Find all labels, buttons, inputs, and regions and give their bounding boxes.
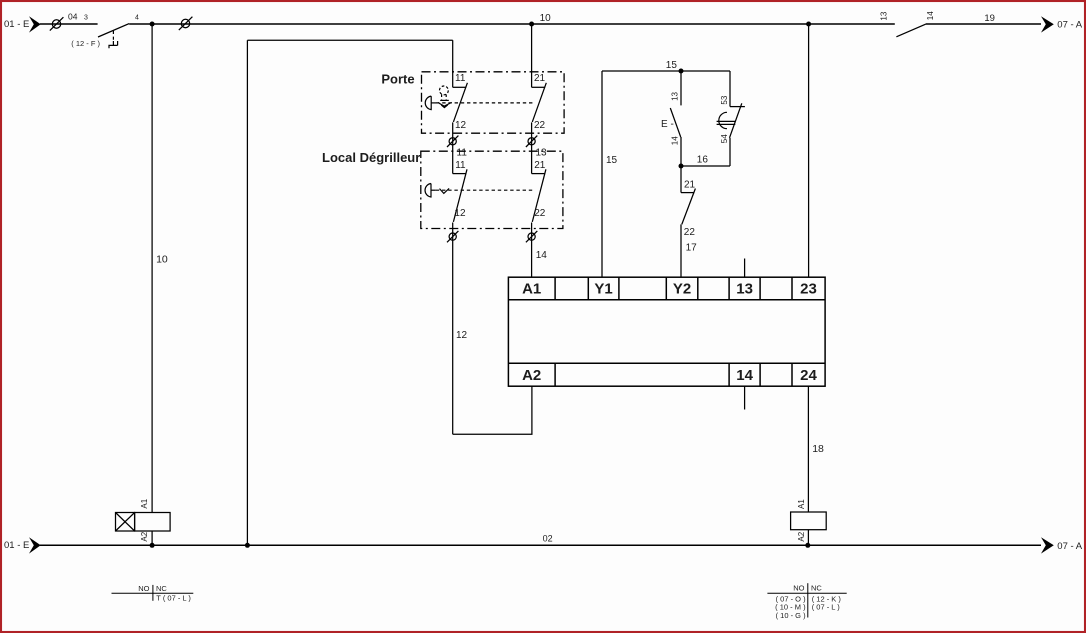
bottom-left rail entry arrow xyxy=(29,537,41,553)
wire 14 down to relay A1 xyxy=(531,223,533,278)
node 07-A bottom rail label xyxy=(1057,541,1082,552)
svg-text:Y1: Y1 xyxy=(594,281,612,298)
svg-text:22: 22 xyxy=(684,227,696,238)
svg-text:A2: A2 xyxy=(140,531,149,541)
Porte roller actuator semicircle xyxy=(425,96,431,110)
label E - xyxy=(661,119,674,130)
svg-text:E -: E - xyxy=(661,119,674,130)
junction node x=531.6 xyxy=(529,22,534,27)
wire jog from contact 12 to A2 xyxy=(453,386,532,434)
Porte NC contact 11/12 xyxy=(453,86,467,88)
pin 22 label xyxy=(534,208,546,219)
pin 21 label xyxy=(684,180,696,191)
svg-text:21: 21 xyxy=(684,180,696,191)
wire down to Porte contact 21 xyxy=(531,24,533,87)
pin 22 label xyxy=(684,227,696,238)
pin 22 label xyxy=(534,120,546,131)
Local NC contact 21/22 xyxy=(532,173,546,175)
bottom rail xyxy=(4,534,1083,554)
mechanical link dashed xyxy=(112,31,114,40)
wire number 13 xyxy=(536,147,548,158)
svg-text:NO: NO xyxy=(793,584,804,593)
svg-text:22: 22 xyxy=(534,208,546,219)
svg-text:17: 17 xyxy=(686,243,698,254)
Porte key symbol xyxy=(440,86,449,99)
wire Porte contact1 to Local contact1 xyxy=(452,122,454,173)
pin 12 label xyxy=(454,208,466,219)
pin 21 label xyxy=(534,73,546,84)
wire second vertical x=247.4 xyxy=(246,40,248,545)
wire label 16 xyxy=(697,155,709,166)
Local chevron xyxy=(440,188,450,193)
svg-text:21: 21 xyxy=(534,160,546,171)
svg-text:11: 11 xyxy=(457,147,468,158)
svg-text:01 - E: 01 - E xyxy=(4,540,29,551)
wire 23 vertical xyxy=(808,24,810,277)
pin A1 rotated xyxy=(797,499,806,509)
wire label 17 xyxy=(686,243,698,254)
terminal 14 stub below xyxy=(744,386,746,409)
svg-text:13: 13 xyxy=(536,147,548,158)
top-left rail entry arrow xyxy=(29,16,41,32)
interruption symbol on wire 04 xyxy=(52,20,60,28)
svg-text:12: 12 xyxy=(455,120,467,131)
junction node x=247.4 xyxy=(245,543,250,548)
svg-text:( 07 - L ): ( 07 - L ) xyxy=(812,603,841,612)
pin 54 rotated xyxy=(720,134,729,143)
wire label 10 xyxy=(540,13,552,24)
mechanical linkage dashed Local xyxy=(436,189,535,191)
wire top rail segment 2 xyxy=(129,23,895,25)
svg-text:( 10 - G ): ( 10 - G ) xyxy=(776,611,807,620)
NO contact 13/14 top right blade xyxy=(896,24,925,37)
wire 12 vertical down from Local contact1 xyxy=(452,223,454,435)
Local actuator semicircle xyxy=(425,184,431,198)
top-right rail exit arrow xyxy=(1041,16,1054,32)
Local Degrilleur enclosure (dash-dot) xyxy=(421,151,563,228)
pin A1 rotated xyxy=(140,498,149,508)
svg-text:4: 4 xyxy=(135,14,139,21)
svg-text:07 - A: 07 - A xyxy=(1057,20,1082,31)
pin 14 rotated xyxy=(670,136,679,145)
timed contact blade xyxy=(730,103,742,138)
svg-text:NC: NC xyxy=(811,584,822,593)
timer relay block K2 xyxy=(508,277,825,386)
junction node x=152 xyxy=(150,22,155,27)
Local NC contact 11/12 xyxy=(453,173,467,175)
node 07-A top rail label xyxy=(1057,20,1082,31)
reference label (12-F) xyxy=(71,39,100,48)
wire below timed contact xyxy=(729,138,731,166)
pin 21 label xyxy=(534,160,546,171)
coil K1 with latching indicator xyxy=(116,498,171,548)
wire Y1 vertical xyxy=(601,71,603,277)
junction node 15 xyxy=(679,69,684,74)
limit switch contact (12-F) blade xyxy=(98,24,129,37)
svg-text:13: 13 xyxy=(880,11,889,20)
svg-text:A1: A1 xyxy=(797,499,806,509)
Porte NC contact 21/22 xyxy=(532,86,546,88)
pin 4 label xyxy=(135,14,139,21)
svg-text:3: 3 xyxy=(84,14,88,21)
svg-text:18: 18 xyxy=(812,443,824,455)
mechanical linkage dashed Porte xyxy=(436,102,535,104)
svg-text:A2: A2 xyxy=(522,367,541,384)
top row cell borders xyxy=(554,277,556,300)
svg-text:A2: A2 xyxy=(797,531,806,541)
wire top rail segment 3 xyxy=(926,23,1041,25)
svg-text:Local Dégrilleur: Local Dégrilleur xyxy=(322,150,420,165)
pin label 13 rotated xyxy=(880,11,889,20)
svg-text:14: 14 xyxy=(536,250,548,261)
junction node xyxy=(150,543,155,548)
timed contact branch stub xyxy=(729,71,731,107)
E-stop blade xyxy=(670,108,680,137)
coil K2 xyxy=(791,499,827,548)
svg-text:24: 24 xyxy=(800,367,817,384)
bottom row cell borders xyxy=(554,363,556,386)
wire node16 horizontal xyxy=(681,165,730,167)
wire label 15 xyxy=(666,60,678,71)
node 01-E top rail label xyxy=(4,19,29,30)
terminal mark below left xyxy=(449,233,456,240)
wire 17 down to relay Y2 xyxy=(680,224,682,277)
svg-text:01 - E: 01 - E xyxy=(4,19,29,30)
svg-text:14: 14 xyxy=(926,11,935,20)
pin label 14 rotated xyxy=(926,11,935,20)
svg-text:10: 10 xyxy=(156,254,168,266)
svg-text:Porte: Porte xyxy=(381,72,414,87)
svg-text:NO: NO xyxy=(138,584,149,593)
svg-text:13: 13 xyxy=(670,91,679,100)
svg-text:15: 15 xyxy=(606,155,618,166)
wire Porte contact2 to Local contact2 xyxy=(531,122,533,173)
svg-text:15: 15 xyxy=(666,60,678,71)
wire down to Porte contact 11 xyxy=(452,40,454,87)
pin 11 label xyxy=(455,160,466,171)
NC contact 21/22 below node 16 xyxy=(680,166,682,193)
pin 11 label xyxy=(455,73,466,84)
wire label 15 vertical xyxy=(606,155,618,166)
svg-text:( 12 - F ): ( 12 - F ) xyxy=(71,39,100,48)
svg-text:A1: A1 xyxy=(522,281,541,298)
interruption symbol on rail xyxy=(181,19,189,27)
terminal 13 stub xyxy=(744,259,746,278)
wire coil K2 to rail xyxy=(807,530,809,546)
pin 53 rotated xyxy=(720,95,729,104)
wire label 04 xyxy=(68,12,78,22)
pin 12 label xyxy=(455,120,467,131)
svg-text:14: 14 xyxy=(670,136,679,145)
wire 24 to coil K2 xyxy=(807,386,809,512)
svg-text:A1: A1 xyxy=(140,498,149,508)
wire number 11 xyxy=(457,147,468,158)
svg-text:14: 14 xyxy=(736,367,753,384)
E-stop contact 13/14 stub xyxy=(680,71,682,105)
node 01-E bottom rail label xyxy=(4,540,29,551)
wire bottom rail xyxy=(40,544,1041,546)
svg-text:Y2: Y2 xyxy=(673,281,691,298)
junction node xyxy=(805,543,810,548)
junction node x=808.6 xyxy=(806,22,811,27)
bottom-right rail exit arrow xyxy=(1041,537,1054,553)
svg-text:NC: NC xyxy=(156,584,167,593)
svg-text:12: 12 xyxy=(454,208,466,219)
svg-text:04: 04 xyxy=(68,12,78,22)
svg-text:54: 54 xyxy=(720,134,729,143)
pin A2 rotated xyxy=(797,531,806,541)
wire label 02 xyxy=(543,534,553,544)
svg-text:13: 13 xyxy=(736,281,753,298)
actuator symbol (12-F) xyxy=(109,41,118,48)
wire horizontal y=39.5 xyxy=(247,39,452,41)
junction node 16 xyxy=(679,164,684,169)
wire label 19 xyxy=(984,13,995,24)
wire label 10 vertical xyxy=(156,254,168,266)
svg-text:10: 10 xyxy=(540,13,552,24)
K1 contact cross-reference table xyxy=(112,585,194,601)
wire label 18 xyxy=(812,443,824,455)
wire node 15 horizontal xyxy=(602,70,730,72)
terminal mark wire 13 xyxy=(528,138,535,145)
svg-text:21: 21 xyxy=(534,73,546,84)
K2 contact cross-reference table xyxy=(767,583,846,617)
pin 13 rotated xyxy=(670,91,679,100)
wire below E-stop xyxy=(680,137,682,166)
terminal mark wire 11 xyxy=(449,138,456,145)
Porte switch enclosure (dash-dot) xyxy=(422,72,565,133)
wire number 14 xyxy=(536,250,548,261)
terminal mark below right xyxy=(528,233,535,240)
svg-text:T ( 07 - L ): T ( 07 - L ) xyxy=(156,593,191,602)
svg-text:16: 16 xyxy=(697,155,709,166)
svg-text:53: 53 xyxy=(720,95,729,104)
svg-text:11: 11 xyxy=(455,160,466,171)
wire coil K1 to rail xyxy=(151,531,153,545)
svg-text:22: 22 xyxy=(534,120,546,131)
svg-text:19: 19 xyxy=(984,13,995,24)
svg-text:12: 12 xyxy=(456,330,468,341)
svg-text:23: 23 xyxy=(800,281,817,298)
svg-text:02: 02 xyxy=(543,534,553,544)
pin A2 rotated xyxy=(140,531,149,541)
wire left vertical x=152 to coil K1 xyxy=(151,24,153,513)
wire number 12 xyxy=(456,330,468,341)
svg-text:07 - A: 07 - A xyxy=(1057,541,1082,552)
wire top rail segment 1 xyxy=(40,23,98,25)
svg-text:11: 11 xyxy=(455,73,466,84)
Porte chevron linkage xyxy=(438,102,452,106)
time delay symbol xyxy=(719,112,727,128)
pin 3 label xyxy=(84,14,88,21)
